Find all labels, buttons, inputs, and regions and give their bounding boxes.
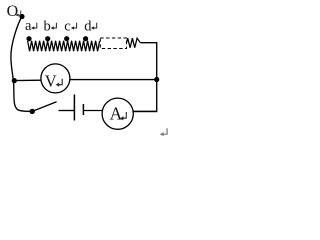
wire battery to ammeter (83, 110, 102, 112)
wire voltmeter left (14, 79, 41, 81)
tap dot d (83, 36, 88, 41)
wire right vertical lower (133, 80, 157, 112)
tap dot c (64, 36, 69, 41)
junction node left (voltmeter tap) (12, 78, 17, 83)
wire ammeter right (133, 110, 157, 112)
svg-text:b: b (44, 18, 51, 34)
paragraph return mark (gray, bottom right) (160, 128, 167, 136)
battery short plate (82, 104, 84, 115)
return mark after b (51, 23, 57, 30)
pivot dot O (19, 14, 24, 19)
return mark after V (56, 79, 63, 87)
return mark after O (16, 10, 21, 16)
battery long plate (73, 95, 75, 121)
wire top right (140, 43, 156, 80)
switch S pivot dot (30, 109, 35, 114)
switch S blade (32, 102, 56, 112)
dashed box (hidden section) (100, 38, 126, 49)
svg-text:a: a (25, 18, 32, 34)
junction node right (154, 77, 159, 82)
wire switch to battery (59, 110, 75, 112)
wire voltmeter right (70, 79, 157, 81)
voltmeter U1 circle (41, 64, 70, 93)
resistor segment right (126, 38, 140, 48)
svg-text:O: O (7, 3, 19, 20)
resistance coil R with taps (28, 41, 100, 52)
svg-text:V: V (45, 72, 57, 91)
svg-text:A: A (110, 104, 123, 124)
return mark after d (91, 23, 97, 30)
tap dot a (26, 36, 31, 41)
svg-text:d: d (84, 18, 92, 34)
selector arm wire (curved left conductor) (11, 17, 32, 112)
ammeter A1 circle (102, 98, 133, 129)
svg-text:c: c (64, 18, 70, 34)
return mark after c (71, 23, 77, 30)
tap dot b (45, 36, 50, 41)
return mark after A (120, 112, 126, 120)
return mark after a (31, 23, 37, 30)
